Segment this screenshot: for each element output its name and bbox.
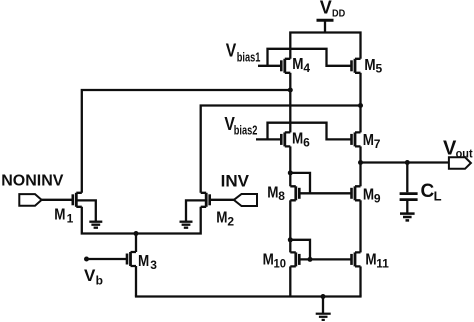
svg-text:V: V [320, 0, 332, 17]
svg-text:INV: INV [221, 172, 250, 191]
svg-text:M: M [365, 251, 376, 268]
svg-text:b: b [96, 274, 103, 288]
svg-text:7: 7 [374, 137, 381, 151]
svg-text:8: 8 [278, 189, 285, 203]
svg-text:bias1: bias1 [237, 50, 261, 65]
svg-text:C: C [421, 181, 435, 202]
svg-text:bias2: bias2 [234, 122, 258, 137]
svg-text:M: M [267, 184, 278, 201]
svg-text:11: 11 [376, 256, 389, 270]
svg-text:9: 9 [374, 192, 381, 206]
svg-text:3: 3 [150, 258, 157, 272]
svg-text:M: M [363, 132, 374, 149]
svg-text:DD: DD [332, 8, 346, 20]
svg-text:M: M [54, 207, 65, 224]
svg-text:10: 10 [274, 256, 287, 270]
svg-text:M: M [363, 187, 374, 204]
svg-text:4: 4 [303, 61, 310, 75]
svg-text:out: out [456, 147, 473, 161]
svg-text:M: M [364, 57, 375, 74]
svg-text:M: M [263, 251, 274, 268]
svg-text:1: 1 [67, 212, 74, 226]
svg-text:L: L [434, 188, 442, 203]
svg-text:M: M [138, 253, 149, 270]
svg-text:M: M [292, 131, 303, 148]
svg-text:M: M [292, 56, 303, 73]
svg-text:NONINV: NONINV [1, 173, 64, 190]
svg-text:2: 2 [227, 214, 234, 228]
svg-text:M: M [216, 210, 227, 227]
svg-text:V: V [226, 40, 237, 60]
svg-text:5: 5 [376, 62, 383, 76]
svg-text:6: 6 [303, 135, 310, 149]
svg-text:V: V [84, 266, 96, 285]
